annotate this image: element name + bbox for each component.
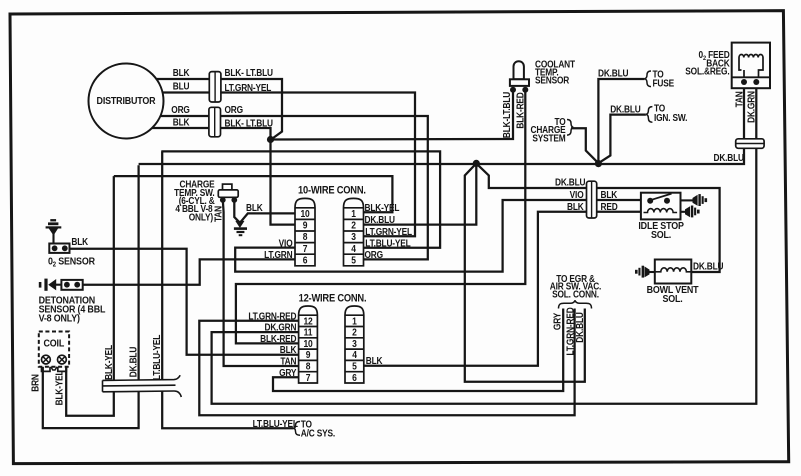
svg-text:DK.BLU: DK.BLU <box>714 152 744 163</box>
svg-text:TAN: TAN <box>213 206 224 222</box>
svg-text:BLK: BLK <box>366 355 383 366</box>
connector (distributor lower) <box>209 107 221 137</box>
svg-text:DISTRIBUTOR: DISTRIBUTOR <box>97 95 156 107</box>
wire 12-wire pin 12 LT.GRN-RED to EGR conn <box>199 309 574 416</box>
svg-text:DK.BLU: DK.BLU <box>555 177 585 188</box>
label TAN (O2 feedback, rotated) <box>734 91 745 107</box>
svg-text:5: 5 <box>352 361 357 372</box>
svg-text:LT.GRN: LT.GRN <box>264 250 292 261</box>
svg-text:LT.GRN-RED: LT.GRN-RED <box>248 311 297 322</box>
svg-text:ORG: ORG <box>171 105 190 116</box>
svg-text:6: 6 <box>352 372 357 383</box>
wire BLK-YEL bus to 10-wire pin 1 <box>114 176 393 212</box>
coil <box>39 332 69 372</box>
svg-text:6: 6 <box>303 255 308 266</box>
svg-text:SYSTEM: SYSTEM <box>532 133 565 144</box>
svg-text:2: 2 <box>351 220 356 231</box>
wire idle stop RED from 12-wire pin 5 BLK <box>364 212 641 366</box>
svg-text:DK.BLU: DK.BLU <box>575 312 586 342</box>
label DK.GRN (O2 feedback, rotated) <box>746 91 757 123</box>
svg-text:10: 10 <box>303 338 312 349</box>
svg-text:COIL: COIL <box>44 338 65 350</box>
wire distributor BLU / LT.GRN-YEL to 10-wire pin 3 <box>130 93 415 237</box>
wire idle stop connector BLK to solenoid <box>597 199 641 201</box>
svg-text:SENSOR: SENSOR <box>535 75 570 86</box>
charge temp switch <box>218 184 238 203</box>
svg-text:BLK- LT.BLU: BLK- LT.BLU <box>225 67 273 78</box>
svg-text:BLU: BLU <box>173 81 190 92</box>
wire DK.BLU bus <box>43 165 139 428</box>
svg-text:BLK: BLK <box>246 202 263 213</box>
svg-text:BLK-RED: BLK-RED <box>515 92 526 129</box>
svg-text:DK.BLU: DK.BLU <box>128 347 139 377</box>
label BRN (rotated) <box>30 374 41 392</box>
label GRY (EGR, rotated) <box>552 313 563 330</box>
label BLK-YEL (coil, rotated) <box>54 370 65 405</box>
svg-text:8: 8 <box>306 361 311 372</box>
connector (idle stop, double bar) <box>587 181 597 218</box>
svg-text:DK.GRN: DK.GRN <box>746 91 757 123</box>
wire detonation sensor to 10-wire pin 6 <box>83 259 295 284</box>
coolant temp sensor <box>510 61 529 93</box>
wire junction A to 10-wire pin 9 <box>271 140 296 225</box>
svg-text:ORG: ORG <box>225 105 244 116</box>
wire 12-wire pin 11 DK.GRN to O2 feedback sol <box>212 86 757 404</box>
svg-text:TAN: TAN <box>734 91 745 107</box>
wire junction B diagonal left to EGR DK.BLU <box>465 163 585 381</box>
svg-text:BLK- LT.BLU: BLK- LT.BLU <box>225 118 273 129</box>
wire LT.BLU-YEL vertical to A/C brace <box>162 151 293 428</box>
wire DK.BLU bus horizontal <box>139 86 744 164</box>
svg-text:3: 3 <box>351 232 356 243</box>
wire idle stop to plug 2 <box>681 211 686 213</box>
svg-text:9: 9 <box>306 350 311 361</box>
bowl vent solenoid <box>655 260 692 284</box>
svg-text:BLK: BLK <box>71 237 88 248</box>
svg-text:VIO: VIO <box>570 189 584 200</box>
svg-text:ORG: ORG <box>365 249 384 260</box>
wire charge temp switch TAN to 12-wire pin 8 <box>223 200 299 366</box>
label BLK-RED (coolant, rotated) <box>515 92 526 129</box>
svg-text:LT.GRN-YEL: LT.GRN-YEL <box>225 82 272 93</box>
svg-text:02 SENSOR: 02 SENSOR <box>48 256 95 269</box>
plug (bowl vent) <box>635 266 650 278</box>
svg-text:2: 2 <box>352 327 357 338</box>
svg-text:1: 1 <box>351 208 356 219</box>
svg-text:VIO: VIO <box>279 238 293 249</box>
svg-text:BLK-RED: BLK-RED <box>260 333 297 344</box>
wire DK.BLU TO IGN. SW. <box>598 115 646 164</box>
connector (distributor upper) <box>209 72 221 102</box>
svg-text:GRY: GRY <box>279 367 296 378</box>
svg-text:TAN: TAN <box>280 356 296 367</box>
junction B dot <box>473 160 480 167</box>
wire junction B diagonal right to idle stop DK.BLU <box>476 163 586 188</box>
wire TO CHARGE SYSTEM <box>571 128 598 163</box>
wire loom sleeve <box>103 375 182 397</box>
svg-text:BLK: BLK <box>567 201 584 212</box>
svg-text:3: 3 <box>352 338 357 349</box>
svg-text:10-WIRE CONN.: 10-WIRE CONN. <box>298 185 366 197</box>
wire charge temp switch to ground <box>234 200 240 223</box>
svg-text:DK.BLU: DK.BLU <box>365 214 395 225</box>
svg-text:LT.BLU-YEL: LT.BLU-YEL <box>365 238 411 249</box>
wire O2 sensor BLK to 12-wire pin 9 <box>67 249 299 355</box>
wire distributor BLK / BLK-LT.BLU to junction A <box>130 128 271 140</box>
svg-text:ONLY): ONLY) <box>189 212 213 223</box>
svg-text:RED: RED <box>601 201 619 212</box>
svg-text:SOL.: SOL. <box>662 293 683 305</box>
svg-text:BLK: BLK <box>601 189 618 200</box>
svg-text:A/C SYS.: A/C SYS. <box>301 428 335 439</box>
O2 sensor <box>46 219 70 253</box>
wire 12-wire pin 7 GRY to EGR conn <box>273 309 563 392</box>
svg-text:8: 8 <box>303 232 308 243</box>
svg-text:V-8 ONLY): V-8 ONLY) <box>39 313 80 325</box>
svg-text:IGN. SW.: IGN. SW. <box>654 112 687 123</box>
svg-text:7: 7 <box>306 372 311 383</box>
ground (charge temp switch) <box>234 221 247 235</box>
svg-text:10: 10 <box>300 208 309 219</box>
brace TO FUSE <box>645 71 651 87</box>
wire BLK ground to 10-wire pin 10 <box>240 213 295 222</box>
brace EGR conn <box>559 300 592 308</box>
wire BLK-YEL vertical from coil <box>66 176 114 416</box>
label LT.GRN-RED (EGR, rotated) <box>565 307 576 356</box>
junction C dot (charge system) <box>595 160 602 167</box>
wire 10-wire pin 2 DK.BLU to junction B <box>364 163 477 224</box>
label DK.BLU (loom, rotated) <box>128 347 139 377</box>
svg-text:BLK-YEL: BLK-YEL <box>365 202 400 213</box>
svg-text:LT.BLU-YEL: LT.BLU-YEL <box>152 334 163 380</box>
idle stop solenoid <box>641 193 681 220</box>
label DK.BLU (EGR, rotated) <box>575 312 586 342</box>
svg-text:LT.BLU-YEL: LT.BLU-YEL <box>253 419 299 430</box>
svg-text:SOL.: SOL. <box>651 229 672 241</box>
wire DK.BLU TO FUSE <box>598 79 644 163</box>
label TAN (rotated) <box>213 206 224 222</box>
wire idle stop to plug 1 <box>681 199 694 201</box>
label LT.BLU-YEL (loom, rotated) <box>152 334 163 380</box>
svg-text:SOL.&REG.: SOL.&REG. <box>685 66 729 77</box>
junction A dot <box>267 136 274 143</box>
svg-text:DK.BLU: DK.BLU <box>610 104 640 115</box>
svg-text:5: 5 <box>351 255 356 266</box>
connector (O2 feedback, horizontal double bar) <box>736 139 764 149</box>
svg-text:BLK: BLK <box>280 345 297 356</box>
svg-text:11: 11 <box>304 327 313 338</box>
label BLK-LT.BLU (coolant, rotated) <box>501 92 512 138</box>
label BLK-YEL (loom, rotated) <box>104 344 115 379</box>
svg-text:12-WIRE CONN.: 12-WIRE CONN. <box>299 293 367 305</box>
plug (idle stop switch) <box>693 194 708 206</box>
wire VIO 10-wire pin 7 to idle stop connector <box>235 200 586 272</box>
brace TO IGN. SW. <box>646 107 652 123</box>
svg-text:DK.BLU: DK.BLU <box>598 68 628 79</box>
svg-text:9: 9 <box>303 220 308 231</box>
wire bowl vent to plug <box>648 271 655 273</box>
svg-text:12: 12 <box>303 316 312 327</box>
detonation sensor <box>39 279 83 291</box>
wire junction A to coolant temp sensor BLK-LT.BLU <box>271 91 514 140</box>
svg-text:BLK: BLK <box>173 67 190 78</box>
svg-text:DK.GRN: DK.GRN <box>265 322 297 333</box>
svg-text:7: 7 <box>303 243 308 254</box>
svg-text:FUSE: FUSE <box>653 78 675 89</box>
wire DK.BLU idle stop connector to bowl vent <box>597 188 720 272</box>
wire distributor BLK to connector, BLK-LT.BLU to junction A <box>130 79 282 140</box>
wire distributor ORG to 10-wire pin 5 <box>130 116 428 259</box>
svg-text:1: 1 <box>352 316 357 327</box>
svg-text:BLK: BLK <box>173 117 190 128</box>
wire coolant temp sensor BLK-RED to 12-wire pin 10 <box>236 91 525 343</box>
svg-text:BLK-YEL: BLK-YEL <box>104 344 115 379</box>
wire LT.BLU-YEL bus to 10-wire pin 4 <box>161 151 440 247</box>
O2 feedback sol & reg <box>732 43 770 89</box>
svg-text:BLK-LT.BLU: BLK-LT.BLU <box>501 92 512 138</box>
svg-text:SOL. CONN.: SOL. CONN. <box>552 289 599 300</box>
distributor <box>89 64 164 139</box>
svg-text:GRY: GRY <box>552 313 563 330</box>
svg-text:BLK-YEL: BLK-YEL <box>54 370 65 405</box>
svg-text:BRN: BRN <box>30 374 41 392</box>
svg-text:LT.GRN-YEL: LT.GRN-YEL <box>365 226 412 237</box>
svg-text:DK.BLU: DK.BLU <box>693 261 723 272</box>
plug (idle stop coil) <box>685 206 700 218</box>
